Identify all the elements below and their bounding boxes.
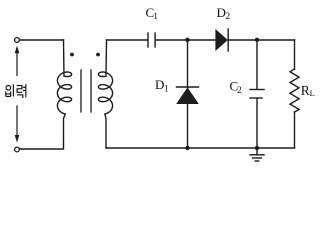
wire top-left horizontal: [20, 39, 64, 41]
transformer secondary winding: [105, 40, 108, 76]
arrow down (input): [15, 106, 20, 143]
wire secondary top to C1: [107, 39, 148, 41]
resistor RL branch wire upper: [294, 40, 296, 69]
node junction bottom (D1): [185, 146, 189, 150]
capacitor C2 branch wire upper: [256, 40, 258, 89]
diode D1: [177, 87, 199, 103]
diode D1 vertical wire: [187, 40, 189, 148]
diode D2: [216, 29, 228, 51]
wire bottom-left horizontal: [20, 144, 64, 149]
svg-text:L: L: [310, 88, 315, 98]
svg-text:1: 1: [153, 12, 158, 22]
svg-text:2: 2: [237, 86, 242, 96]
ground: [250, 148, 264, 161]
input terminal top-left: [15, 38, 20, 43]
transformer core: [80, 70, 82, 112]
svg-text:R: R: [301, 83, 310, 98]
capacitor C2 branch wire lower: [256, 99, 258, 149]
capacitor C2: [250, 90, 264, 99]
wire C1 to D2: [155, 39, 216, 41]
node junction bottom (ground): [255, 146, 259, 150]
polarity dot secondary: [96, 53, 100, 57]
capacitor C1: [148, 33, 155, 47]
node junction top (C1/D1): [185, 38, 189, 42]
svg-text:2: 2: [225, 12, 230, 22]
label input (Korean 입력): [6, 84, 26, 98]
wire D2 to output corner: [228, 39, 294, 41]
svg-text:1: 1: [164, 84, 169, 94]
arrow up (input): [15, 46, 20, 76]
resistor RL branch wire lower: [294, 112, 296, 148]
polarity dot primary: [70, 53, 74, 57]
resistor RL zigzag: [290, 69, 299, 112]
input terminal bottom-left: [15, 147, 20, 152]
bottom rail: [106, 147, 295, 149]
node junction top (C2): [255, 38, 259, 42]
transformer primary winding: [63, 40, 66, 76]
